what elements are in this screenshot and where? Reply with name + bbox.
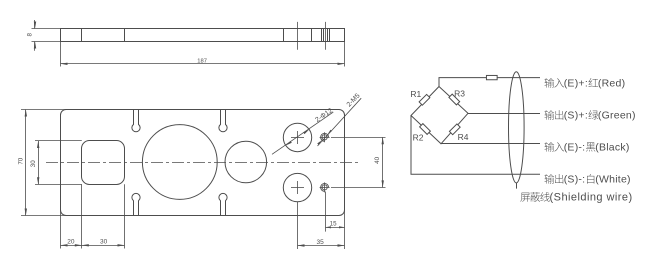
svg-text:15: 15 — [330, 221, 337, 228]
dimension 40 extension lines — [331, 137, 386, 139]
rounded square cutout — [82, 141, 125, 185]
cable ellipse — [509, 72, 525, 183]
svg-text:(Red): (Red) — [598, 77, 626, 89]
svg-text:20: 20 — [67, 238, 75, 245]
medium circle cutout — [225, 141, 267, 183]
side view hole edge lines — [81, 29, 83, 42]
side view plate outline — [61, 29, 345, 42]
dimension 30v extension lines — [35, 140, 82, 142]
hole phi12 bottom crosshair — [291, 187, 304, 189]
shielding wire stub — [516, 183, 518, 189]
svg-text:35: 35 — [316, 239, 324, 246]
svg-text:8: 8 — [27, 33, 34, 37]
dimension 70 extension lines — [21, 109, 67, 111]
svg-text:(Black): (Black) — [595, 141, 629, 153]
resistor R2 — [420, 124, 431, 135]
svg-text:(Green): (Green) — [598, 110, 636, 122]
svg-text:30: 30 — [30, 160, 37, 167]
dimension 187 extension lines — [60, 42, 62, 67]
svg-text:R2: R2 — [413, 132, 424, 142]
svg-text:70: 70 — [17, 157, 24, 164]
resistor R4 — [449, 124, 460, 135]
label E- black — [545, 142, 555, 152]
label E+ red — [545, 78, 555, 88]
dimension 8 extension lines — [32, 28, 61, 30]
front view plate outline — [61, 110, 345, 216]
dimension 40 line+arrows — [382, 137, 384, 187]
dimension 30v line+arrows — [38, 141, 40, 184]
svg-text:R4: R4 — [458, 132, 469, 142]
dimension 70 line+arrows — [25, 110, 27, 216]
hole phi12 top crosshair — [291, 137, 304, 139]
svg-text:(Shielding wire): (Shielding wire) — [550, 191, 633, 203]
leader 2-M5 line — [318, 98, 362, 146]
keyhole slot bottom-left — [132, 193, 140, 215]
keyhole slot top-left — [132, 110, 140, 132]
label S+ green — [545, 110, 555, 120]
svg-text:(E)-:: (E)-: — [564, 141, 586, 153]
dim bottom-left extension lines — [60, 209, 62, 249]
dim 15 line+arrows — [325, 227, 344, 229]
wire S- (left) — [411, 116, 540, 175]
dim 20 line+arrows — [61, 245, 82, 247]
svg-text:(S)+:: (S)+: — [564, 110, 588, 122]
svg-text:30: 30 — [100, 238, 108, 245]
hole phi12 bottom circle — [283, 173, 311, 201]
side view hole axis centerlines — [297, 22, 299, 50]
bridge diamond wires — [411, 87, 468, 144]
svg-text:187: 187 — [197, 58, 207, 64]
hole phi12 top circle — [283, 123, 311, 151]
svg-text:(E)+:: (E)+: — [564, 77, 588, 89]
keyhole slot top-right — [219, 110, 227, 132]
resistor R3 — [449, 94, 460, 105]
wire S+ (right) — [468, 113, 540, 115]
svg-text:R3: R3 — [454, 88, 465, 98]
leader 2-phi12 line — [272, 112, 333, 154]
horizontal centerline — [46, 162, 361, 164]
svg-text:(S)-:: (S)-: — [564, 173, 586, 185]
leader 2-M5 arrows — [327, 130, 332, 135]
svg-text:(White): (White) — [595, 173, 631, 185]
compensation resistor on E+ wire — [486, 75, 497, 79]
hole M5 top — [322, 135, 327, 140]
dim 30h line+arrows — [82, 245, 125, 247]
svg-text:R1: R1 — [410, 89, 421, 99]
dim bottom-right extension lines — [297, 202, 299, 249]
leader 2-phi12 arrows — [303, 129, 310, 134]
dimension 187 line+arrows — [61, 63, 345, 65]
wire E+ (top) — [439, 78, 540, 87]
large circle cutout — [142, 125, 217, 200]
resistor R1 — [419, 94, 430, 105]
keyhole slot bottom-right — [219, 193, 227, 215]
hole M5 bottom — [322, 185, 327, 190]
dim 35 line+arrows — [298, 245, 345, 247]
label S- white — [545, 174, 555, 184]
dimension 8 lines+arrows — [34, 20, 36, 29]
svg-text:40: 40 — [374, 156, 381, 163]
wire E- (bottom) — [441, 143, 540, 145]
label shielding wire — [520, 193, 530, 202]
